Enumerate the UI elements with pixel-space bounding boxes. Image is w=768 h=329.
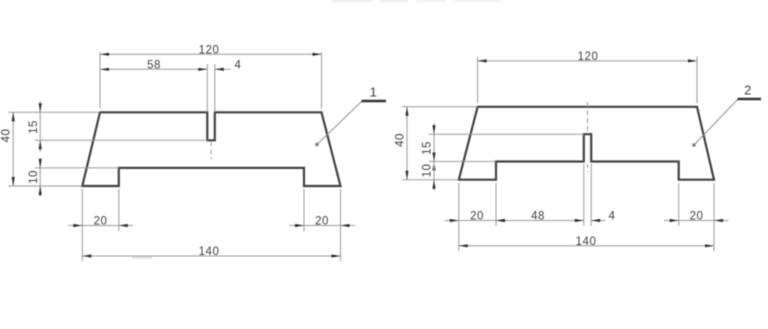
- left side extension lines: [9, 112, 208, 186]
- right dim 20 (left foot): [445, 211, 511, 223]
- left extension lines top: [100, 53, 322, 113]
- svg-text:48: 48: [531, 211, 545, 223]
- left dim 120: [100, 44, 322, 56]
- right dim 140: [459, 236, 714, 248]
- faint scan smudge under left 140 dim: [132, 257, 152, 259]
- left dim 4 (groove width): [215, 59, 242, 71]
- svg-text:140: 140: [576, 236, 597, 248]
- right slot centerline: [587, 102, 589, 172]
- right dim 48: [496, 211, 584, 223]
- left dim 15: [28, 101, 42, 152]
- faint cropped text remnants at top edge: [332, 0, 500, 2]
- svg-text:40: 40: [395, 133, 407, 147]
- svg-text:140: 140: [199, 246, 220, 258]
- right side extension lines: [402, 107, 584, 180]
- right dim 120: [478, 51, 697, 63]
- left dim 40: [1, 112, 15, 186]
- left dim 20 (right foot): [290, 216, 356, 228]
- svg-text:15: 15: [422, 141, 434, 155]
- svg-text:10: 10: [28, 170, 40, 184]
- leader line and label 2: [692, 83, 761, 147]
- right dim 4 (slot width): [591, 211, 615, 223]
- left dim 58: [100, 59, 207, 71]
- svg-text:40: 40: [1, 129, 13, 143]
- svg-text:120: 120: [578, 51, 599, 63]
- left dim 140: [82, 246, 340, 258]
- svg-text:2: 2: [744, 83, 752, 98]
- right extension lines top: [478, 57, 697, 104]
- svg-text:4: 4: [609, 211, 616, 223]
- left profile outline (board 1, groove on top): [82, 112, 340, 186]
- svg-text:120: 120: [199, 44, 220, 56]
- right dim 20 (right foot): [664, 211, 729, 223]
- right profile outline (board 2, groove underneath): [459, 107, 714, 180]
- svg-text:58: 58: [147, 59, 161, 71]
- svg-text:10: 10: [422, 164, 434, 178]
- right dim 40: [395, 107, 409, 180]
- svg-text:20: 20: [315, 216, 329, 228]
- leader line and label 1: [315, 85, 386, 147]
- left dim 10: [28, 158, 42, 197]
- svg-text:20: 20: [690, 211, 704, 223]
- left groove centerline: [210, 141, 212, 159]
- svg-text:15: 15: [28, 120, 40, 134]
- right bottom extension lines: [459, 164, 714, 251]
- left bottom extension lines: [82, 189, 340, 261]
- left dim 20 (left foot): [68, 216, 133, 228]
- svg-text:20: 20: [94, 216, 108, 228]
- svg-text:4: 4: [235, 59, 242, 71]
- svg-text:1: 1: [370, 85, 378, 100]
- right dim 10: [422, 153, 436, 191]
- right dim 15: [422, 123, 436, 173]
- svg-text:20: 20: [470, 211, 484, 223]
